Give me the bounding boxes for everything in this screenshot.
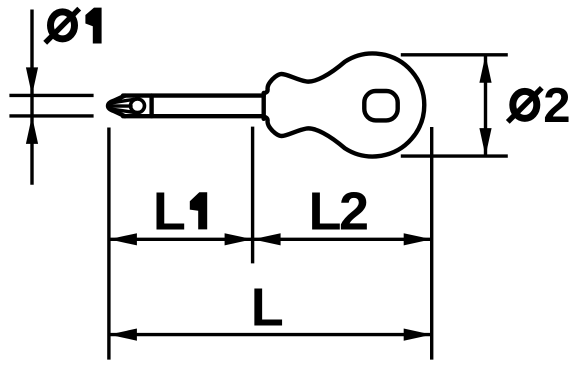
svg-text:L: L (153, 181, 186, 241)
svg-text:2: 2 (339, 181, 369, 241)
svg-text:L: L (309, 181, 342, 241)
svg-text:2: 2 (543, 79, 570, 133)
svg-text:L: L (251, 277, 284, 337)
